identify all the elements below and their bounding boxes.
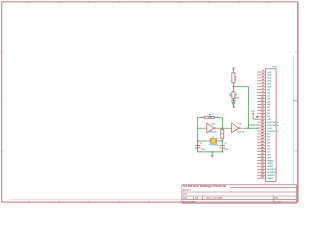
svg-text:CLKOUT_2: CLKOUT_2 xyxy=(267,131,279,133)
svg-text:C2: C2 xyxy=(224,143,226,145)
svg-text:U1B: U1B xyxy=(237,124,241,126)
svg-text:RD: RD xyxy=(267,154,271,156)
svg-text:+5V: +5V xyxy=(267,119,271,121)
svg-text:74HC04: 74HC04 xyxy=(209,131,217,134)
svg-text:BUSREQ: BUSREQ xyxy=(267,172,277,174)
svg-text:Rev:: Rev: xyxy=(275,197,280,199)
svg-text:File:: File: xyxy=(183,194,188,196)
svg-text:IORQ: IORQ xyxy=(267,163,273,165)
svg-text:74HC04: 74HC04 xyxy=(237,131,245,134)
svg-text:/WAIT: /WAIT xyxy=(267,177,274,180)
svg-text:C1: C1 xyxy=(200,143,202,145)
svg-text:Id: 1/1: Id: 1/1 xyxy=(275,201,282,203)
svg-text:1.8432MHz: 1.8432MHz xyxy=(208,144,218,147)
svg-text:P101: P101 xyxy=(272,66,278,68)
svg-text:Size:: Size: xyxy=(183,198,188,200)
svg-text:EXTCLK_A: EXTCLK_A xyxy=(267,121,279,124)
svg-text:WR: WR xyxy=(267,157,271,159)
svg-text:Y1: Y1 xyxy=(212,137,214,139)
svg-text:Date: 3 jul 2024: Date: 3 jul 2024 xyxy=(206,197,223,200)
svg-text:MREQ: MREQ xyxy=(267,160,274,162)
svg-text:/RESET: /RESET xyxy=(267,175,276,177)
svg-text:RFSH: RFSH xyxy=(267,166,273,168)
svg-text:U1A: U1A xyxy=(211,123,215,126)
svg-text:470K: 470K xyxy=(208,116,213,119)
svg-text:GND: GND xyxy=(235,98,240,100)
svg-text:The Z80 Retro Challenge 5 Cloc: The Z80 Retro Challenge 5 Clock unit xyxy=(183,185,226,188)
svg-text:KiCad E.D.A.: KiCad E.D.A. xyxy=(183,201,196,204)
svg-text:Sheet: /: Sheet: / xyxy=(183,188,191,191)
svg-text:CLK: CLK xyxy=(267,128,272,130)
svg-text:EXTCLK_B: EXTCLK_B xyxy=(267,125,279,127)
svg-text:BUSACK: BUSACK xyxy=(267,168,277,171)
